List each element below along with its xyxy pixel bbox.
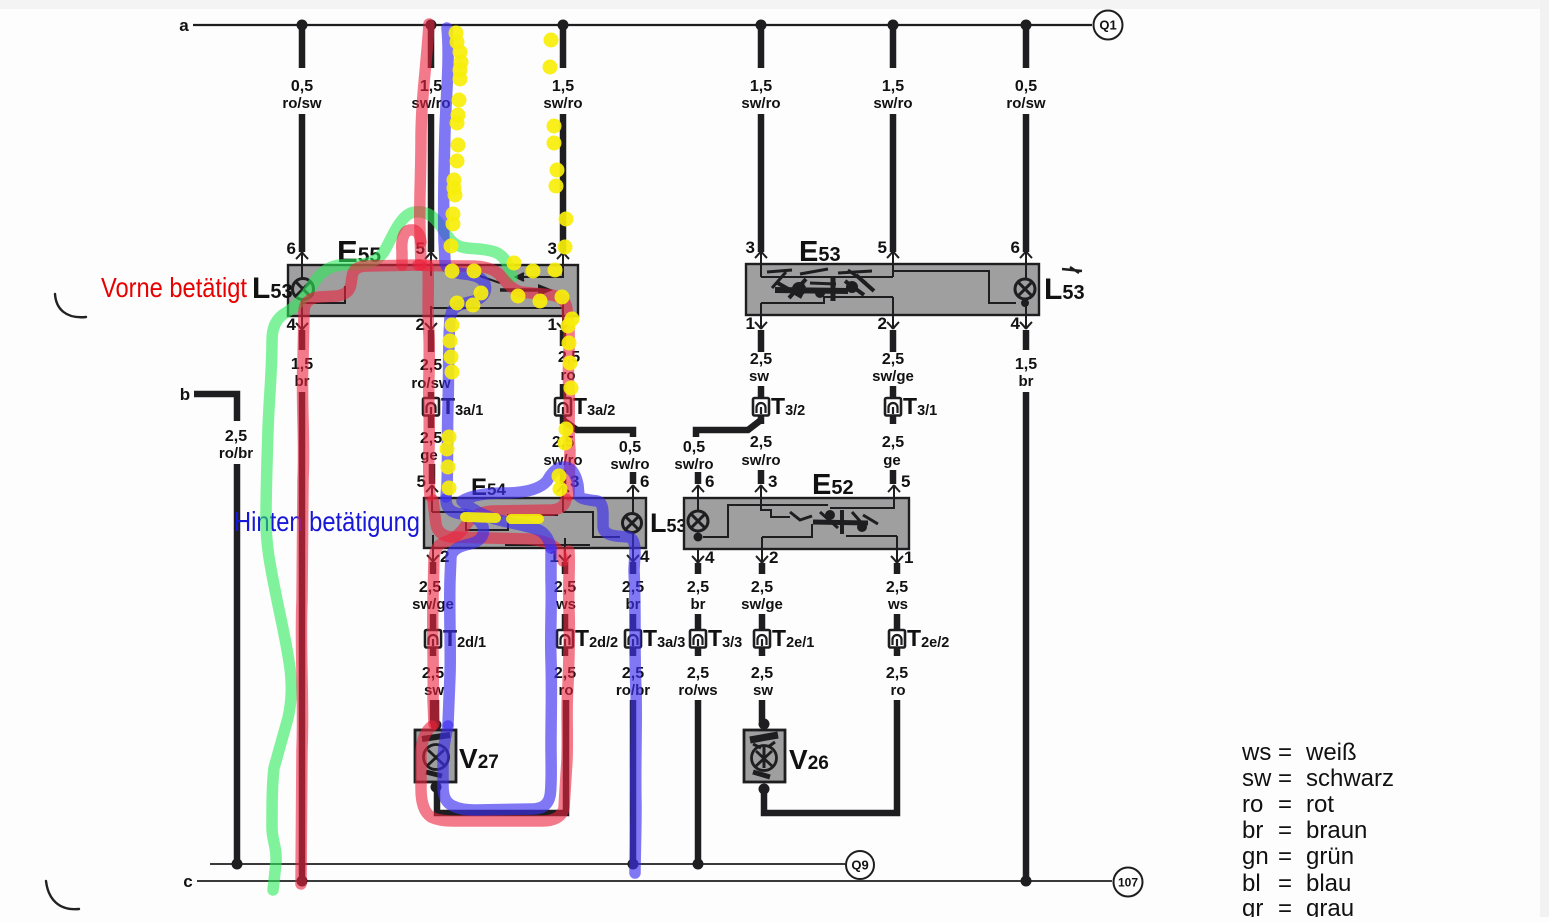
pin 3 xyxy=(755,485,767,499)
lamp L53 in E55 xyxy=(293,279,314,300)
svg-text:6: 6 xyxy=(1011,238,1020,257)
svg-text:blau: blau xyxy=(1306,870,1351,897)
svg-text:br: br xyxy=(1242,817,1263,844)
pin 5 xyxy=(425,252,437,266)
connector T2d/2 xyxy=(557,630,573,648)
svg-text:ro: ro xyxy=(891,682,906,699)
branch wire T3/2 to 0,5 sw/ro xyxy=(696,420,761,437)
branch wire T3a/2 to 0,5 sw/ro xyxy=(563,420,633,437)
blue marker through V27 loop up T2d/2 xyxy=(443,550,551,810)
red marker through E55 to lamp and down br wire xyxy=(301,265,420,884)
wire E54 pin2 2,5 sw/ge xyxy=(430,562,437,574)
red marker V27 left side and loop to T2d/2 xyxy=(421,551,569,821)
wire E53 pin2 2,5 sw/ge xyxy=(890,330,897,352)
wire b to Q9 rail xyxy=(234,464,241,862)
pin 4 xyxy=(296,315,308,330)
svg-text:5: 5 xyxy=(901,472,910,491)
svg-text:=: = xyxy=(1278,817,1292,844)
svg-text:rot: rot xyxy=(1306,791,1334,818)
wire from rail a at x=302 (0,5 ro/sw) xyxy=(297,20,308,31)
pin 6 xyxy=(1020,251,1032,265)
svg-text:1,5: 1,5 xyxy=(882,78,904,95)
pin 5 xyxy=(426,485,438,499)
svg-text:sw/ge: sw/ge xyxy=(741,596,783,613)
E52 messy switch mechanism xyxy=(790,510,878,534)
svg-text:sw/ro: sw/ro xyxy=(674,456,713,473)
svg-text:1: 1 xyxy=(746,314,755,333)
motor V26 xyxy=(759,719,770,730)
pin 4 xyxy=(627,547,639,562)
wire E54 pin4 2,5 br xyxy=(630,562,637,574)
E52 lamp lower node xyxy=(694,533,703,542)
connector T2e/2 xyxy=(889,630,905,648)
wire from rail a at x=761 (1,5 sw/ro) xyxy=(756,20,767,31)
svg-text:grün: grün xyxy=(1306,843,1354,870)
svg-text:sw/ro: sw/ro xyxy=(610,456,649,473)
svg-text:sw/ro: sw/ro xyxy=(741,452,780,469)
svg-text:ge: ge xyxy=(883,452,901,469)
connector T2e/1 xyxy=(754,630,770,648)
rail a (top plus bus) xyxy=(193,24,1092,26)
wire E55 pin1 2,5 ro xyxy=(560,330,567,346)
switch E55 xyxy=(288,265,578,316)
svg-text:ws: ws xyxy=(1241,739,1271,766)
wire E53 pin4 1,5 br to rail c xyxy=(1023,330,1030,350)
svg-text:1,5: 1,5 xyxy=(1015,356,1037,373)
junction br wire / rail c xyxy=(297,876,308,887)
svg-text:ro/br: ro/br xyxy=(219,445,253,462)
svg-text:braun: braun xyxy=(1306,817,1367,844)
svg-text:2: 2 xyxy=(769,548,778,567)
wire E55 pin4 1,5 br to rail c xyxy=(299,330,306,350)
pin 1 xyxy=(559,547,571,562)
svg-text:4: 4 xyxy=(1011,314,1021,333)
pin 3 xyxy=(755,251,767,265)
rail with Q9 xyxy=(210,863,845,865)
svg-text:2: 2 xyxy=(878,314,887,333)
pin 1 xyxy=(557,315,569,330)
motor V27 xyxy=(433,700,440,730)
lamp L53 in E54 xyxy=(623,514,642,533)
wire E52 pin4 2,5 br xyxy=(695,563,702,574)
junction ro/br / Q9 rail xyxy=(628,859,639,870)
svg-text:2,5: 2,5 xyxy=(225,428,247,445)
connector T3/1 xyxy=(885,398,901,416)
svg-text:2,5: 2,5 xyxy=(751,579,773,596)
svg-text:4: 4 xyxy=(705,548,715,567)
green marker trace xyxy=(266,212,512,890)
wire 2,5 ro down to V26 loop xyxy=(764,700,897,813)
pin 5 xyxy=(888,485,900,499)
svg-text:0,5: 0,5 xyxy=(1015,78,1037,95)
svg-text:sw/ro: sw/ro xyxy=(543,95,582,112)
lamp L53 in E53 xyxy=(1015,279,1035,299)
E54 internal contacts xyxy=(432,499,633,548)
red marker inside E54 cross from pin5 down to pin1 xyxy=(433,500,563,561)
svg-text:a: a xyxy=(179,16,189,35)
switch E53 xyxy=(746,264,1039,315)
svg-text:sw: sw xyxy=(749,368,769,385)
svg-text:6: 6 xyxy=(705,472,714,491)
svg-text:weiß: weiß xyxy=(1305,739,1357,766)
wire from rail a at x=563 (1,5 sw/ro) xyxy=(558,20,569,31)
wire from rail a at x=431 (1,5 sw/ro) xyxy=(426,20,437,31)
svg-text:sw/ro: sw/ro xyxy=(873,95,912,112)
svg-text:2,5: 2,5 xyxy=(886,579,908,596)
svg-text:2,5: 2,5 xyxy=(687,579,709,596)
svg-text:gr: gr xyxy=(1242,895,1263,917)
wire E52 pin1 2,5 ws xyxy=(894,563,901,574)
svg-text:Q1: Q1 xyxy=(1099,18,1116,33)
svg-text:107: 107 xyxy=(1118,875,1138,889)
wire from rail a at x=1026 (0,5 ro/sw) xyxy=(1021,20,1032,31)
yellow marker dots xyxy=(449,26,464,41)
blue marker inside E54 pin1 up across to lamp and down T3a/3 xyxy=(462,467,636,873)
switch E52 xyxy=(684,498,909,549)
pin 2 xyxy=(887,314,899,329)
svg-text:6: 6 xyxy=(640,472,649,491)
svg-text:2,5: 2,5 xyxy=(750,351,772,368)
E53 messy switch mechanism xyxy=(767,267,1082,301)
svg-text:ro: ro xyxy=(1242,791,1263,818)
E55 internal contacts xyxy=(302,266,563,315)
svg-text:=: = xyxy=(1278,739,1292,766)
pin 1 xyxy=(891,548,903,563)
connector T3a/2 xyxy=(555,398,571,416)
switch E54 xyxy=(424,498,646,548)
svg-text:sw/ge: sw/ge xyxy=(872,368,914,385)
red marker through E55 right to T3a/2 column xyxy=(418,265,570,495)
lamp L53 in E52 xyxy=(688,511,708,531)
pin 4 xyxy=(1020,314,1032,329)
svg-text:br: br xyxy=(691,596,706,613)
svg-text:=: = xyxy=(1278,870,1292,897)
svg-text:1: 1 xyxy=(548,315,557,334)
pin 6 xyxy=(692,485,704,499)
svg-text:=: = xyxy=(1278,895,1292,917)
pen mark arc left xyxy=(55,294,86,317)
svg-text:c: c xyxy=(183,872,192,891)
wire from rail a at x=893 (1,5 sw/ro) xyxy=(888,20,899,31)
svg-text:2,5: 2,5 xyxy=(882,351,904,368)
pin 6 xyxy=(296,252,308,266)
red marker E55 pin2 column down to E54 xyxy=(428,266,430,496)
E52 internal contacts xyxy=(698,499,897,549)
svg-text:br: br xyxy=(1019,373,1034,390)
connector T3a/1 xyxy=(423,398,439,416)
wire E53 pin1 2,5 sw xyxy=(758,330,765,352)
pin 1 xyxy=(755,314,767,329)
svg-text:Q9: Q9 xyxy=(851,858,868,873)
svg-text:sw/ro: sw/ro xyxy=(741,95,780,112)
pin 4 xyxy=(692,548,704,563)
blue marker trace from rail a through E55 xyxy=(444,28,486,497)
red marker loop at E55 pin 5 xyxy=(402,230,421,265)
svg-text:3: 3 xyxy=(548,239,557,258)
wire E54 pin1 2,5 ws xyxy=(562,562,569,574)
pin 3 xyxy=(557,252,569,266)
svg-text:ro/ws: ro/ws xyxy=(678,682,717,699)
pin 5 xyxy=(887,251,899,265)
svg-text:=: = xyxy=(1278,843,1292,870)
svg-text:5: 5 xyxy=(878,238,887,257)
rail c (bottom ground bus) xyxy=(197,880,1112,882)
E53 internal contacts xyxy=(761,265,1026,315)
svg-text:3: 3 xyxy=(768,472,777,491)
pin 2 xyxy=(425,315,437,330)
svg-text:2,5: 2,5 xyxy=(882,434,904,451)
connector T3/3 xyxy=(690,630,706,648)
pen mark arc bottom left xyxy=(46,881,79,909)
svg-text:sw: sw xyxy=(753,682,773,699)
pin 3 xyxy=(557,485,569,499)
junction b / Q9 rail xyxy=(232,859,243,870)
pin 2 xyxy=(427,547,439,562)
pin 2 xyxy=(756,548,768,563)
junction ro/ws / Q9 rail xyxy=(693,859,704,870)
svg-text:2,5: 2,5 xyxy=(751,665,773,682)
terminal 107 xyxy=(1114,868,1143,897)
svg-text:ro/sw: ro/sw xyxy=(282,95,322,112)
svg-text:4: 4 xyxy=(640,547,650,566)
svg-text:=: = xyxy=(1278,765,1292,792)
svg-text:1,5: 1,5 xyxy=(750,78,772,95)
svg-text:ro/sw: ro/sw xyxy=(1006,95,1046,112)
svg-text:6: 6 xyxy=(287,239,296,258)
svg-text:bl: bl xyxy=(1242,870,1261,897)
svg-text:1,5: 1,5 xyxy=(552,78,574,95)
svg-text:ws: ws xyxy=(887,596,908,613)
svg-text:sw: sw xyxy=(1242,765,1272,792)
wire E52 pin2 2,5 sw/ge xyxy=(759,563,766,574)
connector T3/2 xyxy=(753,398,769,416)
yellow marker dashes inside E54 xyxy=(465,517,496,518)
svg-text:0,5: 0,5 xyxy=(619,439,641,456)
terminal Q9 xyxy=(846,851,874,879)
blue marker inside E54 pin5 to pin2 and down xyxy=(446,499,483,724)
svg-text:schwarz: schwarz xyxy=(1306,765,1394,792)
red marker inside E54 cross to pin2 and down to V27 xyxy=(433,499,566,724)
svg-text:0,5: 0,5 xyxy=(683,439,705,456)
terminal Q1 xyxy=(1094,11,1123,40)
svg-text:b: b xyxy=(180,385,190,404)
svg-text:1: 1 xyxy=(904,548,913,567)
junction br wire / rail c right xyxy=(1021,876,1032,887)
connector T3a/3 xyxy=(625,630,641,648)
svg-text:2,5: 2,5 xyxy=(687,665,709,682)
wire 2,5 ro down to V27 loop xyxy=(437,700,566,813)
connector T2d/1 xyxy=(425,630,441,648)
svg-text:gn: gn xyxy=(1242,843,1269,870)
svg-text:Vorne betätigt: Vorne betätigt xyxy=(101,272,247,303)
wire E55 pin2 2,5 ro/sw xyxy=(428,330,435,352)
svg-text:grau: grau xyxy=(1306,895,1354,917)
svg-text:0,5: 0,5 xyxy=(291,78,313,95)
pin 6 xyxy=(627,485,639,499)
svg-text:=: = xyxy=(1278,791,1292,818)
red marker trace main xyxy=(420,24,429,265)
svg-text:3: 3 xyxy=(746,238,755,257)
svg-text:2,5: 2,5 xyxy=(886,665,908,682)
E53 lamp lower node xyxy=(1021,299,1029,307)
svg-text:2,5: 2,5 xyxy=(750,434,772,451)
